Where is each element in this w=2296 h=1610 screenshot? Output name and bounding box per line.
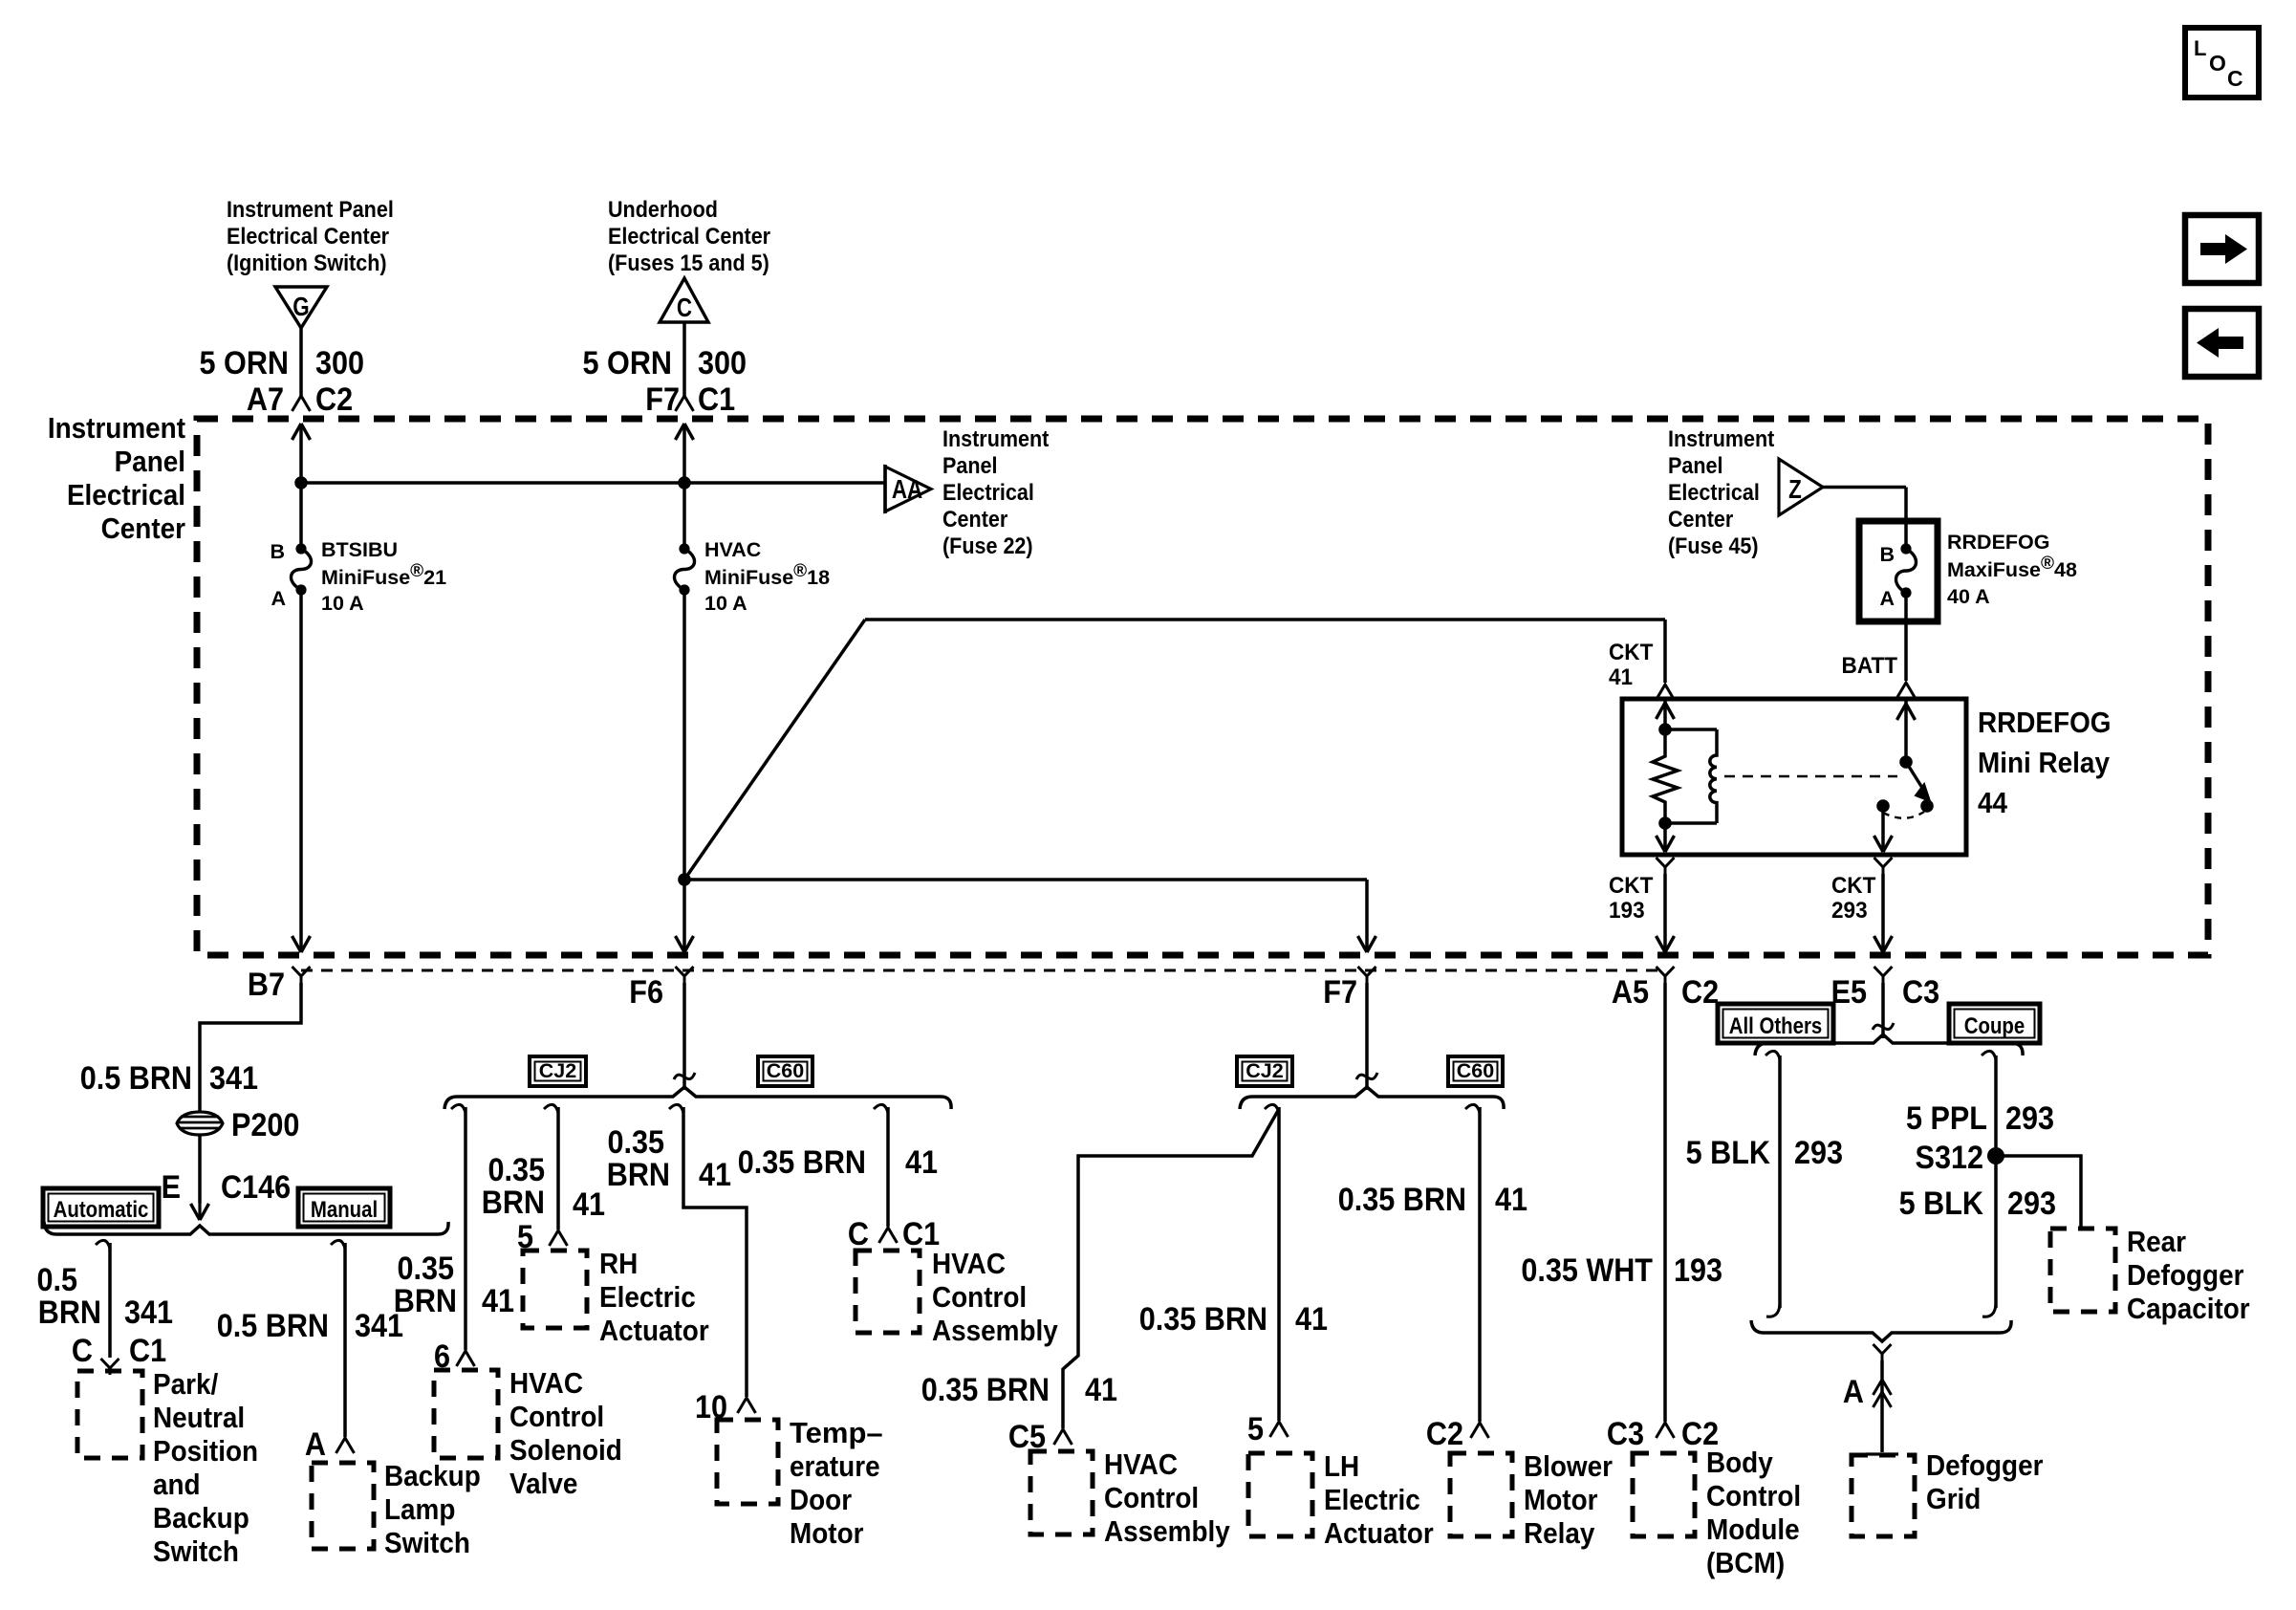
svg-text:Instrument: Instrument [48, 412, 185, 446]
svg-text:300: 300 [698, 345, 747, 381]
svg-text:Module: Module [1706, 1513, 1800, 1547]
svg-text:Actuator: Actuator [599, 1315, 709, 1348]
relay actuation dashed link [1724, 775, 1897, 778]
option box Automatic [43, 1188, 159, 1227]
off-page triangle Z [1779, 459, 1823, 515]
node: bus junction at A7 column [294, 476, 308, 490]
svg-text:0.5 BRN: 0.5 BRN [80, 1060, 192, 1097]
svg-text:Backup: Backup [384, 1460, 481, 1493]
component Park/Neutral Position and Backup Switch [77, 1371, 142, 1458]
svg-text:Automatic: Automatic [54, 1196, 149, 1222]
wire branch 5: LH Electric Actuator [1265, 1104, 1279, 1113]
wire branch 5: RH Electric Actuator [544, 1104, 558, 1113]
svg-text:HVAC: HVAC [932, 1248, 1006, 1281]
svg-text:41: 41 [1495, 1182, 1527, 1218]
svg-text:0.35 WHT: 0.35 WHT [1521, 1252, 1653, 1289]
svg-text:F6: F6 [629, 974, 663, 1011]
connector below relay CKT 293 [1874, 858, 1893, 867]
svg-text:Center: Center [101, 512, 186, 546]
component Rear Defogger Capacitor [2050, 1229, 2115, 1312]
connector into relay BATT pin [1897, 683, 1916, 698]
svg-text:MaxiFuse®48: MaxiFuse®48 [1947, 554, 2077, 581]
fuse RRDEFOG MaxiFuse 48 40A box [1859, 521, 1938, 621]
svg-text:BRN: BRN [607, 1157, 670, 1193]
wire F7 entry into IP box [676, 424, 694, 440]
svg-text:0.35 BRN: 0.35 BRN [921, 1372, 1050, 1408]
wire A5 to BCM [1663, 983, 1667, 1422]
svg-text:A: A [1879, 587, 1895, 610]
node: junction F6/CKT41/F7 [678, 873, 691, 886]
svg-text:44: 44 [1978, 787, 2008, 820]
wire CKT 193 to A5 exit [1663, 874, 1667, 952]
svg-text:A: A [271, 587, 286, 610]
svg-text:RH: RH [599, 1248, 638, 1281]
svg-text:(Fuse 45): (Fuse 45) [1668, 533, 1759, 559]
horizontal bus wire to AA [301, 481, 885, 485]
wire horizontal to F7 exit [684, 878, 1367, 881]
harness connector dotted line [301, 969, 1665, 972]
svg-text:C: C [677, 294, 692, 323]
wire fuse A to B7 exit [299, 590, 303, 952]
svg-text:10 A: 10 A [704, 592, 747, 615]
svg-text:Backup: Backup [153, 1502, 249, 1535]
svg-text:Grid: Grid [1926, 1483, 1981, 1516]
svg-text:Park/: Park/ [153, 1368, 218, 1402]
svg-text:Control: Control [1104, 1482, 1199, 1515]
connector C146 splice bus [44, 1222, 448, 1234]
wire branch C/C1: HVAC Control Assembly [874, 1104, 888, 1113]
component Temperature Door Motor [717, 1420, 778, 1504]
svg-text:Electrical: Electrical [1668, 479, 1760, 506]
svg-text:Lamp: Lamp [384, 1493, 455, 1527]
svg-text:341: 341 [209, 1060, 258, 1097]
svg-text:341: 341 [124, 1295, 173, 1331]
svg-text:Z: Z [1788, 475, 1802, 505]
svg-text:0.35 BRN: 0.35 BRN [738, 1144, 866, 1181]
svg-text:Electrical Center: Electrical Center [608, 223, 770, 250]
forward arrow box [2185, 215, 2259, 283]
svg-text:300: 300 [315, 345, 364, 381]
svg-text:Position: Position [153, 1435, 258, 1469]
svg-text:Assembly: Assembly [1104, 1515, 1230, 1549]
splice S312 [1987, 1147, 2004, 1164]
option box Manual [298, 1188, 390, 1227]
relay switch common [1904, 699, 1908, 762]
svg-text:Blower: Blower [1524, 1450, 1613, 1484]
svg-text:Solenoid: Solenoid [509, 1434, 622, 1468]
svg-text:41: 41 [1085, 1372, 1117, 1408]
relay NO contact [1920, 799, 1934, 813]
svg-text:E5: E5 [1831, 974, 1867, 1011]
wire from C to connector F7/C1 [682, 322, 686, 396]
splice bus under F7 [1240, 1087, 1504, 1109]
svg-text:C: C [2227, 66, 2243, 91]
component Defogger Grid [1852, 1455, 1915, 1536]
svg-text:(Fuses 15 and 5): (Fuses 15 and 5) [608, 250, 769, 276]
svg-text:RRDEFOG: RRDEFOG [1947, 531, 2050, 554]
svg-text:Mini Relay: Mini Relay [1978, 747, 2111, 780]
svg-text:C2: C2 [1426, 1416, 1463, 1452]
wire CKT 293 to E5 exit [1881, 874, 1885, 952]
svg-text:Switch: Switch [384, 1527, 470, 1560]
svg-text:0.35 BRN: 0.35 BRN [1338, 1182, 1466, 1218]
svg-text:CJ2: CJ2 [539, 1059, 576, 1082]
svg-text:C60: C60 [1457, 1059, 1494, 1082]
wire Manual branch [331, 1240, 345, 1249]
svg-text:Control: Control [509, 1401, 604, 1434]
svg-text:P200: P200 [231, 1107, 299, 1143]
svg-text:0.5 BRN: 0.5 BRN [217, 1308, 329, 1344]
svg-text:193: 193 [1674, 1252, 1722, 1289]
svg-text:Manual: Manual [311, 1196, 378, 1222]
svg-text:Door: Door [790, 1484, 853, 1517]
relay coil bottom junction [1658, 816, 1672, 830]
wire branch C5: HVAC Control Assembly 2 [1063, 1109, 1279, 1428]
connector E5/C3 [1874, 967, 1893, 976]
svg-text:S312: S312 [1916, 1140, 1983, 1176]
svg-text:Motor: Motor [790, 1517, 864, 1551]
wire P200 to C146 [198, 1135, 202, 1203]
LOC reference box [2185, 28, 2259, 98]
splice bus to defogger grid [1751, 1320, 2011, 1341]
grid connector A [1874, 1380, 1892, 1395]
connector below relay CKT 193 [1657, 858, 1675, 867]
svg-text:CJ2: CJ2 [1245, 1059, 1283, 1082]
node: bus junction at F7 column [678, 476, 691, 490]
svg-text:Control: Control [1706, 1480, 1801, 1513]
svg-text:Control: Control [932, 1281, 1027, 1315]
svg-text:Panel: Panel [115, 446, 185, 479]
connector A7/C2 [292, 396, 311, 411]
svg-text:Body: Body [1706, 1447, 1773, 1480]
svg-text:B: B [270, 540, 285, 563]
svg-text:BRN: BRN [38, 1295, 101, 1331]
component Blower Motor Relay [1450, 1453, 1512, 1536]
svg-text:MiniFuse®21: MiniFuse®21 [321, 561, 446, 589]
connector A5/C2 [1657, 967, 1675, 976]
svg-text:Temp–: Temp– [790, 1416, 883, 1449]
svg-text:Panel: Panel [942, 452, 997, 479]
svg-text:Coupe: Coupe [1964, 1012, 2025, 1038]
svg-text:5 ORN: 5 ORN [583, 345, 672, 381]
svg-text:193: 193 [1609, 897, 1645, 923]
svg-text:C2: C2 [315, 381, 353, 418]
component Backup Lamp Switch [312, 1463, 374, 1549]
svg-text:L: L [2194, 36, 2206, 60]
svg-text:C146: C146 [221, 1169, 291, 1206]
svg-text:Valve: Valve [509, 1468, 577, 1501]
svg-text:CKT: CKT [1831, 872, 1875, 898]
svg-text:C60: C60 [767, 1059, 804, 1082]
svg-text:Panel: Panel [1668, 452, 1722, 479]
wire from G to connector A7/C2 [299, 328, 303, 396]
wire diagonal to CKT 41 feed [684, 620, 865, 880]
wire A7 entry into IP box [292, 424, 311, 440]
svg-text:CKT: CKT [1609, 639, 1653, 664]
splice bus under F6 [444, 1087, 951, 1109]
relay coil feed pin [1663, 699, 1667, 730]
svg-text:A5: A5 [1612, 974, 1649, 1011]
off-page triangle C [660, 278, 708, 322]
svg-text:HVAC: HVAC [509, 1367, 583, 1401]
svg-text:293: 293 [2007, 1186, 2056, 1222]
wire All Others leg (5 BLK 293) [1765, 1051, 1780, 1059]
component HVAC Control Assembly 1 [856, 1251, 920, 1333]
svg-text:Center: Center [942, 506, 1007, 533]
svg-text:293: 293 [1831, 897, 1868, 923]
svg-text:0.35: 0.35 [607, 1124, 664, 1161]
svg-text:0.35 BRN: 0.35 BRN [1139, 1301, 1267, 1338]
wire S312 to Rear Defogger Capacitor [1996, 1156, 2081, 1228]
svg-text:5 PPL: 5 PPL [1906, 1100, 1987, 1137]
connector tag C60 [758, 1056, 812, 1086]
svg-text:Underhood: Underhood [608, 196, 718, 223]
svg-text:Electric: Electric [1324, 1484, 1420, 1517]
wire Coupe leg (5 PPL 293) [1982, 1051, 1996, 1059]
svg-text:A: A [1843, 1374, 1864, 1410]
svg-text:Switch: Switch [153, 1535, 239, 1569]
svg-text:293: 293 [2005, 1100, 2054, 1137]
svg-text:(Ignition Switch): (Ignition Switch) [227, 250, 387, 276]
svg-text:C: C [72, 1333, 93, 1369]
relay coil [1710, 729, 1717, 823]
svg-text:Instrument: Instrument [942, 425, 1050, 452]
svg-text:Motor: Motor [1524, 1484, 1598, 1517]
fuse BTSIBU MiniFuse 21 10A [295, 543, 306, 554]
svg-text:10 A: 10 A [321, 592, 364, 615]
svg-text:and: and [153, 1469, 201, 1502]
wire BATT to relay [1904, 593, 1908, 681]
connector into relay pin 41 [1657, 685, 1675, 700]
component RH Electric Actuator [523, 1251, 587, 1328]
svg-text:Defogger: Defogger [2127, 1259, 2244, 1293]
svg-text:C1: C1 [698, 381, 735, 418]
svg-text:40 A: 40 A [1947, 585, 1990, 608]
svg-text:B7: B7 [248, 967, 285, 1003]
svg-text:41: 41 [482, 1283, 514, 1319]
connector tag C60 (2) [1448, 1056, 1503, 1086]
svg-text:All Others: All Others [1729, 1012, 1822, 1038]
svg-text:(Fuse 22): (Fuse 22) [942, 533, 1033, 559]
svg-text:A7: A7 [247, 381, 284, 418]
Instrument Panel Electrical Center dashed boundary [197, 419, 2208, 955]
svg-text:0.5: 0.5 [36, 1262, 77, 1298]
svg-text:B: B [1879, 543, 1895, 566]
svg-text:A: A [305, 1426, 326, 1463]
svg-text:AA: AA [892, 475, 922, 505]
svg-text:Defogger: Defogger [1926, 1449, 2044, 1483]
svg-text:BTSIBU: BTSIBU [321, 538, 398, 561]
svg-text:41: 41 [573, 1186, 605, 1223]
svg-text:Electrical Center: Electrical Center [227, 223, 389, 250]
splice bus under E5 [1755, 1034, 2023, 1055]
svg-text:C1: C1 [129, 1333, 166, 1369]
off-page arrow AA [883, 465, 887, 513]
svg-text:C3: C3 [1607, 1416, 1644, 1452]
svg-text:C2: C2 [1681, 974, 1719, 1011]
wire branch 10: Temperature Door Motor [669, 1104, 683, 1113]
svg-text:Neutral: Neutral [153, 1402, 245, 1435]
component Body Control Module (BCM) [1633, 1453, 1695, 1536]
wire branch 6: HVAC Control Solenoid Valve [451, 1104, 466, 1113]
wire to Defogger Grid [1880, 1360, 1884, 1452]
svg-text:5 ORN: 5 ORN [200, 345, 289, 381]
relay resistor [1653, 729, 1678, 823]
svg-text:0.35: 0.35 [397, 1251, 454, 1287]
wire F6 to bus [682, 983, 686, 1090]
option box Coupe [1949, 1004, 2040, 1043]
svg-text:(BCM): (BCM) [1706, 1547, 1785, 1580]
svg-text:LH: LH [1324, 1450, 1359, 1484]
svg-text:BRN: BRN [394, 1283, 457, 1319]
svg-text:Electrical: Electrical [67, 479, 185, 512]
svg-text:Instrument: Instrument [1668, 425, 1775, 452]
svg-text:41: 41 [1609, 664, 1633, 689]
svg-text:RRDEFOG: RRDEFOG [1978, 707, 2111, 740]
connector F7 (bottom) [1358, 967, 1376, 976]
wire F7 to bus 2 [1365, 983, 1369, 1090]
wire from Z to MaxiFuse [1823, 486, 1906, 490]
svg-text:BRN: BRN [482, 1185, 545, 1221]
svg-text:41: 41 [1295, 1301, 1328, 1338]
svg-text:Rear: Rear [2127, 1226, 2187, 1259]
svg-text:G: G [292, 293, 309, 322]
svg-text:HVAC: HVAC [704, 538, 761, 561]
svg-text:5 BLK: 5 BLK [1686, 1135, 1771, 1171]
connector tag CJ2 [530, 1056, 586, 1086]
relay output contact [1876, 799, 1890, 813]
connector B7 [292, 967, 311, 976]
svg-text:41: 41 [699, 1157, 731, 1193]
svg-text:O: O [2209, 51, 2226, 76]
wire B7 to P200 [200, 983, 301, 1113]
svg-text:Assembly: Assembly [932, 1315, 1058, 1348]
splice P200 [177, 1112, 223, 1135]
svg-text:Actuator: Actuator [1324, 1517, 1434, 1551]
svg-text:E: E [162, 1169, 181, 1206]
svg-text:HVAC: HVAC [1104, 1448, 1178, 1482]
svg-text:293: 293 [1794, 1135, 1843, 1171]
svg-text:F7: F7 [645, 381, 680, 418]
svg-text:41: 41 [905, 1144, 938, 1181]
wire branch C2: Blower Motor Relay [1465, 1104, 1480, 1113]
wire E5 to splice bus [1881, 983, 1885, 1038]
svg-text:C3: C3 [1902, 974, 1939, 1011]
svg-text:Instrument Panel: Instrument Panel [227, 196, 394, 223]
relay switch blade [1906, 762, 1922, 788]
component HVAC Control Assembly 2 [1030, 1451, 1093, 1534]
svg-text:F7: F7 [1323, 974, 1357, 1011]
svg-text:MiniFuse®18: MiniFuse®18 [704, 561, 830, 589]
component LH Electric Actuator [1248, 1453, 1312, 1536]
back arrow box [2185, 309, 2259, 377]
wire fuse to F6 exit [682, 590, 686, 952]
svg-text:Relay: Relay [1524, 1517, 1595, 1551]
svg-text:Electric: Electric [599, 1281, 696, 1315]
connector F7/C1 [676, 396, 694, 411]
component HVAC Control Solenoid Valve [434, 1370, 498, 1458]
off-page triangle G [275, 287, 327, 328]
relay RRDEFOG Mini Relay 44 box [1622, 699, 1966, 855]
wire Automatic branch [96, 1240, 110, 1249]
fuse HVAC MiniFuse 18 10A [679, 543, 689, 554]
connector F6 [676, 967, 694, 976]
svg-text:Center: Center [1668, 506, 1733, 533]
option box All Others [1718, 1004, 1833, 1043]
svg-text:C: C [848, 1216, 869, 1252]
svg-text:Electrical: Electrical [942, 479, 1034, 506]
svg-text:BATT: BATT [1842, 652, 1897, 678]
svg-text:5: 5 [1247, 1411, 1264, 1447]
svg-text:CKT: CKT [1609, 872, 1653, 898]
svg-text:0.35: 0.35 [487, 1152, 545, 1188]
svg-text:5 BLK: 5 BLK [1899, 1186, 1984, 1222]
svg-text:erature: erature [790, 1450, 880, 1484]
connector tag CJ2 (2) [1237, 1056, 1292, 1086]
svg-text:Capacitor: Capacitor [2127, 1293, 2250, 1326]
